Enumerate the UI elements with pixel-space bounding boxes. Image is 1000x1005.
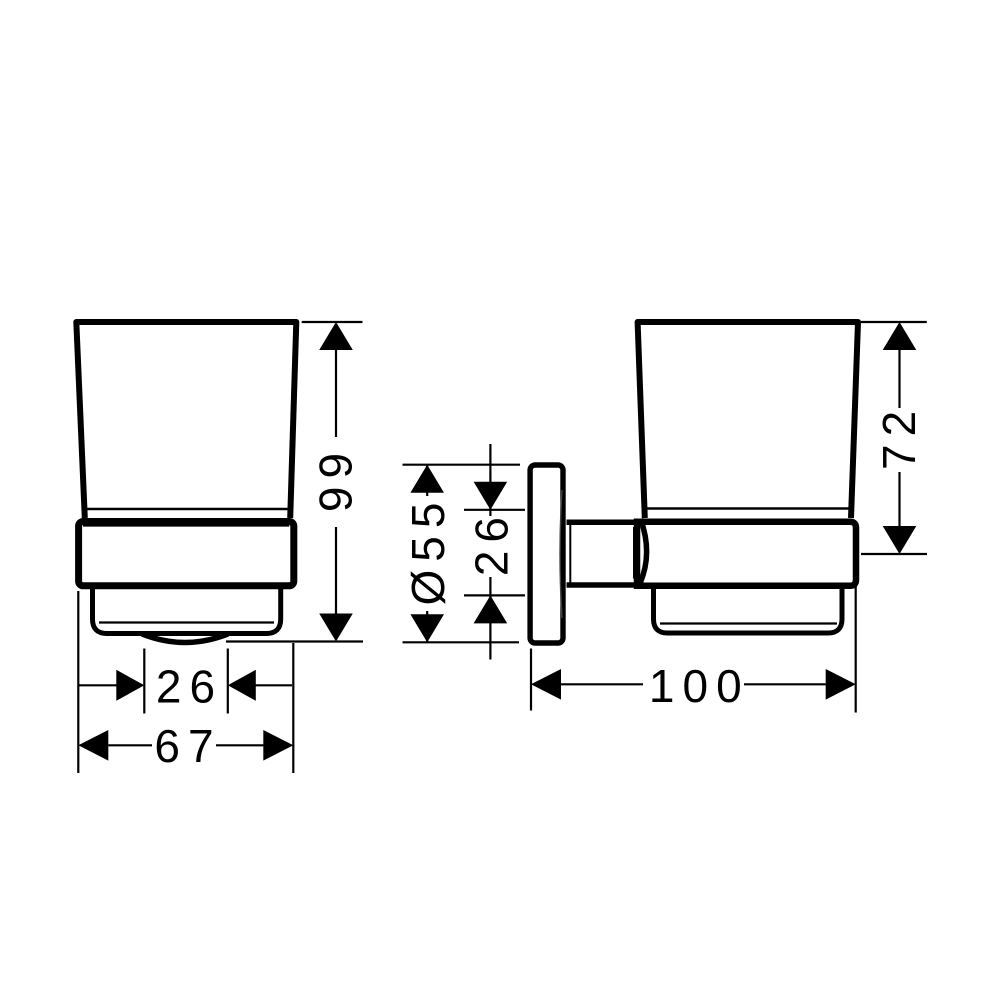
- dimension 99: [226, 322, 363, 642]
- dimension 67: [108, 744, 264, 746]
- wall plate inner contour: [560, 490, 562, 618]
- svg-text:26: 26: [156, 660, 223, 712]
- svg-text:Ø55: Ø55: [402, 495, 454, 606]
- wall plate: [530, 465, 563, 643]
- svg-text:26: 26: [466, 509, 518, 576]
- arm bottom line: [567, 582, 639, 588]
- glass bottom arc: [142, 634, 228, 643]
- svg-text:67: 67: [154, 720, 221, 772]
- arm top line: [567, 520, 639, 526]
- glass skirt side: [654, 584, 843, 633]
- svg-text:100: 100: [649, 660, 750, 712]
- dimension 72: [861, 322, 927, 554]
- arm end joint line: [633, 527, 635, 579]
- holder ring top edge: [83, 518, 289, 527]
- dimension 26 bottom-left: [78, 591, 293, 773]
- glass tumbler front: [76, 322, 296, 518]
- dimension 100: [531, 584, 856, 713]
- svg-text:72: 72: [873, 403, 925, 470]
- holder left curved face: [640, 519, 647, 584]
- holder side: [637, 522, 856, 586]
- glass skirt front: [93, 584, 281, 634]
- holder ring front: [79, 522, 294, 586]
- dimension 26 right: [464, 444, 525, 660]
- glass side: [638, 322, 858, 518]
- svg-text:99: 99: [309, 445, 361, 512]
- arm collar line at plate: [569, 525, 571, 583]
- dimension D55: [403, 465, 521, 643]
